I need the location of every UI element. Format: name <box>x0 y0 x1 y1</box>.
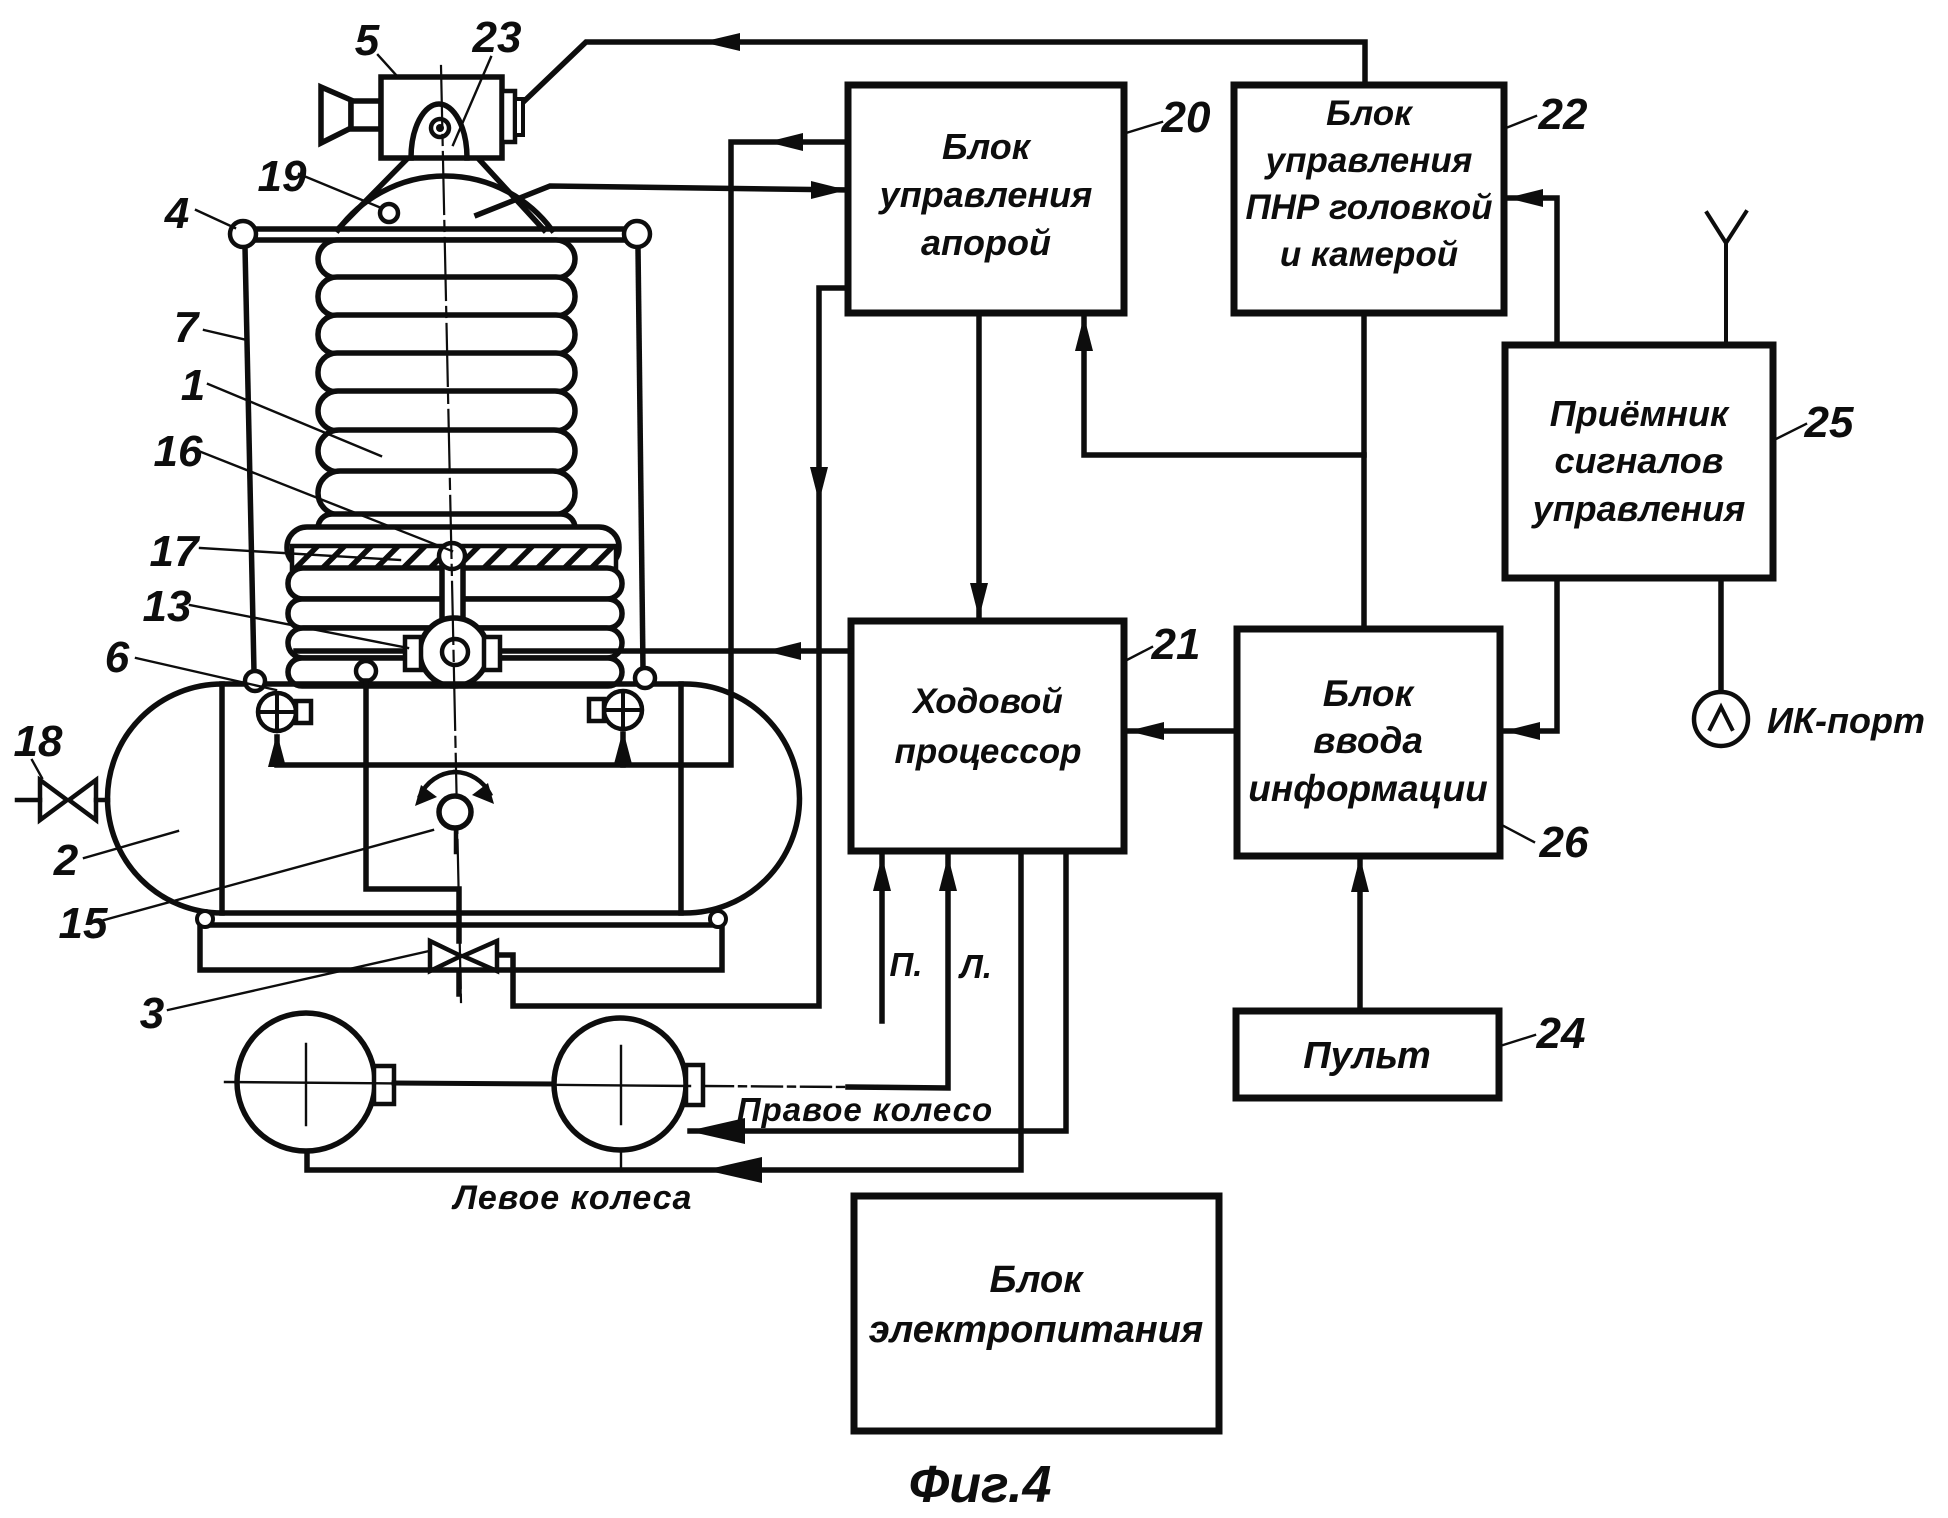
hole 19 on dome <box>380 204 398 222</box>
svg-text:и камерой: и камерой <box>1280 235 1458 274</box>
rod 4 crossbar <box>253 226 627 232</box>
valve 3 stem lower <box>456 971 462 994</box>
svg-text:Ходовой: Ходовой <box>911 682 1062 721</box>
wire L input from axle to block 21 <box>848 856 948 1088</box>
svg-text:24: 24 <box>1536 1009 1586 1058</box>
base foot right <box>710 911 726 927</box>
svg-text:13: 13 <box>143 582 192 631</box>
tank 2 <box>108 684 800 913</box>
arrowhead into block 20 <box>811 181 847 199</box>
platform left edge <box>219 684 225 913</box>
block 22 (PTZ head and camera control unit) <box>1234 85 1504 313</box>
svg-text:17: 17 <box>150 527 201 576</box>
leader 4 <box>196 210 235 228</box>
antenna <box>1707 212 1746 345</box>
arrowhead to right wheel <box>688 1118 745 1144</box>
drain line from small circle to valve 3 <box>366 681 459 941</box>
hatched plate 17 <box>292 546 616 569</box>
svg-text:процессор: процессор <box>895 732 1082 771</box>
wire pult to block 26 <box>1357 857 1363 1011</box>
svg-text:ввода: ввода <box>1313 720 1423 761</box>
IR port label <box>1767 700 1925 741</box>
arrowhead L <box>939 856 957 891</box>
arrowhead mid-wire left <box>767 133 803 151</box>
leader 15 <box>104 830 433 920</box>
svg-text:сигналов: сигналов <box>1554 440 1723 481</box>
joint 13 inner circle <box>442 639 468 665</box>
block 20 (support control unit) <box>848 85 1124 313</box>
wire P input to block 21 <box>879 856 885 1021</box>
right wheel vertical centre line <box>620 1046 622 1124</box>
svg-text:Правое колесо: Правое колесо <box>737 1091 993 1128</box>
svg-text:22: 22 <box>1538 90 1588 139</box>
leader 20 <box>1126 122 1162 133</box>
IR port caret symbol <box>1710 707 1732 729</box>
arrowhead mid-wire to joint 13 <box>765 642 801 660</box>
leader 5 <box>378 55 397 76</box>
arrowhead into block 20 bottom <box>1075 316 1093 351</box>
leader 7 <box>204 330 247 340</box>
svg-text:2: 2 <box>53 836 79 885</box>
right wheel lower stub <box>620 1150 622 1170</box>
plate cap above hatch <box>287 527 619 568</box>
wire block 25 to block 22 <box>1506 198 1557 345</box>
leader 23 <box>453 57 491 145</box>
left tie rod foot <box>245 671 265 691</box>
wire branch to right valve 6 <box>620 734 626 765</box>
block power supply <box>854 1196 1219 1431</box>
camera rear connector <box>502 91 515 142</box>
stem below rotation indicator <box>454 826 459 852</box>
platform right edge <box>678 684 684 913</box>
rotation indicator 15 circle <box>439 796 471 828</box>
wire block 20 to block 21 <box>976 313 982 619</box>
right wheel <box>554 1018 686 1150</box>
svg-text:Л.: Л. <box>958 948 992 985</box>
leader 24 <box>1500 1035 1535 1046</box>
svg-text:1: 1 <box>181 361 205 410</box>
block 24 (remote console) <box>1236 1011 1499 1098</box>
left wheel <box>237 1013 375 1151</box>
bellows 1 upper stack <box>318 240 575 542</box>
svg-text:Фиг.4: Фиг.4 <box>909 1456 1052 1514</box>
centre axis dash-dot line <box>441 66 461 1002</box>
svg-text:6: 6 <box>105 633 130 682</box>
arrowhead P <box>873 856 891 891</box>
camera 5 body <box>381 77 502 158</box>
right valve 6 <box>604 691 642 729</box>
svg-text:ПНР головкой: ПНР головкой <box>1245 188 1492 227</box>
right tie rod foot <box>635 668 655 688</box>
svg-text:электропитания: электропитания <box>869 1309 1204 1351</box>
svg-text:апорой: апорой <box>921 222 1051 263</box>
leader 3 <box>168 951 429 1010</box>
wire block 21 to right wheel <box>690 851 1066 1131</box>
svg-text:16: 16 <box>154 427 203 476</box>
leader 1 <box>208 384 381 456</box>
block 25 (control signal receiver) <box>1505 345 1773 578</box>
wire block 25 to block 26 <box>1503 578 1557 731</box>
small circle on bellows base <box>356 661 376 681</box>
dome 19 <box>338 176 552 230</box>
wire block 22 to block 26 <box>1361 313 1367 629</box>
svg-text:20: 20 <box>1161 93 1211 142</box>
wire block 21 to left wheel <box>307 851 1021 1170</box>
arrowhead into right valve 6 <box>614 730 632 764</box>
base frame <box>200 925 722 970</box>
svg-text:7: 7 <box>174 303 201 352</box>
svg-text:П.: П. <box>890 946 923 983</box>
right wheel hub <box>686 1065 703 1105</box>
svg-text:Приёмник: Приёмник <box>1550 393 1730 434</box>
svg-text:управления: управления <box>1531 488 1746 529</box>
wire branch to block 20 bottom <box>1084 316 1364 455</box>
svg-text:23: 23 <box>472 13 522 62</box>
wire block 26 to block 21 <box>1127 728 1237 734</box>
left wheel vertical centre line <box>305 1044 307 1125</box>
leader 19 <box>299 174 379 207</box>
rod 16 <box>442 558 463 648</box>
left valve 6 <box>258 693 296 731</box>
arrowhead on camera wire <box>702 33 740 51</box>
joint 13 left bracket <box>405 637 421 670</box>
rod 16 top circle <box>439 543 465 569</box>
svg-text:19: 19 <box>258 152 307 201</box>
leader 22 <box>1506 116 1536 128</box>
camera 5 lens tube <box>351 101 381 129</box>
svg-text:18: 18 <box>14 717 63 766</box>
pivot 23 <box>431 119 449 137</box>
arrowhead into block 26 right <box>1504 722 1540 740</box>
svg-text:Левое колеса: Левое колеса <box>451 1179 693 1217</box>
camera 5 lens cone <box>321 87 351 143</box>
leader 13 <box>190 605 408 648</box>
wire block 20 to valve 3 <box>499 288 848 1006</box>
block 21 (drive processor) <box>851 621 1124 851</box>
valve 18 <box>17 780 108 820</box>
svg-text:Блок: Блок <box>942 126 1032 167</box>
svg-text:4: 4 <box>164 189 189 238</box>
leader 25 <box>1774 424 1806 440</box>
rod 4 left ball <box>230 221 256 247</box>
arrowhead into block 26 bottom <box>1351 857 1369 892</box>
svg-text:Блок: Блок <box>1323 673 1416 714</box>
svg-text:информации: информации <box>1248 768 1487 809</box>
svg-text:26: 26 <box>1539 818 1589 867</box>
camera rear stub <box>515 99 523 135</box>
camera mount arch <box>411 104 467 158</box>
svg-text:управления: управления <box>878 174 1093 215</box>
IR port circle <box>1694 692 1748 746</box>
valve 3 bowtie <box>430 941 497 971</box>
rotation indicator arc arrows <box>420 772 455 796</box>
joint 13 right bracket <box>484 637 500 670</box>
svg-text:3: 3 <box>140 989 164 1038</box>
leader 18 <box>32 760 42 778</box>
leader lines <box>32 55 1806 1046</box>
arrowhead into left valve 6 <box>268 733 286 767</box>
arrowhead into block 21 right <box>1128 722 1164 740</box>
arrowhead into block 21 top <box>970 583 988 618</box>
svg-text:Пульт: Пульт <box>1303 1035 1431 1077</box>
svg-text:Блок: Блок <box>990 1259 1085 1301</box>
wire dome to block 20 <box>477 186 848 215</box>
camera mount right leg <box>476 156 544 230</box>
wire IR port to block 25 <box>1718 578 1724 691</box>
rod 4 right ball <box>624 221 650 247</box>
leader 16 <box>196 450 452 551</box>
left tie rod 7 <box>245 247 254 672</box>
right tie rod <box>638 247 643 669</box>
leader 17 <box>200 548 400 560</box>
camera mount left leg <box>338 158 408 229</box>
svg-text:ИК-порт: ИК-порт <box>1767 700 1925 741</box>
svg-text:5: 5 <box>355 16 380 65</box>
svg-text:21: 21 <box>1151 620 1201 669</box>
svg-text:15: 15 <box>59 899 108 948</box>
leader 26 <box>1500 824 1534 842</box>
base foot left <box>197 911 213 927</box>
left wheel hub <box>374 1066 394 1104</box>
wire block 20 to valves 6 <box>277 142 848 765</box>
axle thick segment <box>394 1083 554 1084</box>
svg-text:Блок: Блок <box>1326 94 1414 133</box>
wire camera to block 22 top <box>516 42 1365 109</box>
arrowhead down on valve 3 wire <box>810 467 828 502</box>
leader 2 <box>84 831 178 858</box>
arrowhead to left wheel <box>705 1157 762 1183</box>
bellows lower stack <box>288 568 622 686</box>
joint 13 outer <box>420 618 488 686</box>
block 26 (information input unit) <box>1237 629 1500 856</box>
wire block 21 to joint 13 <box>296 648 851 654</box>
svg-text:управления: управления <box>1264 141 1473 180</box>
svg-text:25: 25 <box>1804 398 1854 447</box>
leader 6 <box>136 658 276 690</box>
axle centre line <box>225 1082 690 1086</box>
arrowhead into block 22 right <box>1507 189 1543 207</box>
leader 21 <box>1125 647 1152 661</box>
